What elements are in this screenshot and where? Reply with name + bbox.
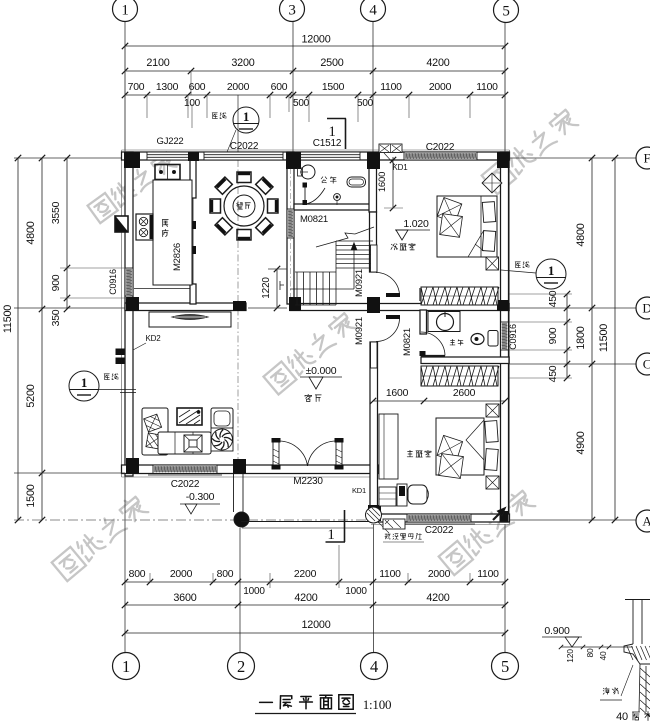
column axis1/F corner xyxy=(124,152,140,168)
dressing table xyxy=(397,484,407,506)
svg-text:2200: 2200 xyxy=(294,569,317,580)
stair landing edge xyxy=(295,271,336,273)
svg-text:M0921: M0921 xyxy=(354,269,365,297)
porch slab edge xyxy=(241,521,373,523)
column axis2 bottom-left wall xyxy=(233,459,246,474)
svg-text:600: 600 xyxy=(271,82,288,93)
svg-text:800: 800 xyxy=(129,569,146,580)
svg-text:1800: 1800 xyxy=(575,326,587,349)
kitchen counter xyxy=(153,180,192,285)
dressing stool xyxy=(408,485,427,504)
svg-text:C1512: C1512 xyxy=(313,138,342,149)
roman column right (hatched) xyxy=(366,507,382,523)
door M0921 master suite xyxy=(371,342,378,368)
svg-text:40: 40 xyxy=(598,651,608,661)
wall kitchen/dining divider lower xyxy=(190,284,196,304)
svg-text:2100: 2100 xyxy=(146,57,169,69)
dim row2 top xyxy=(125,70,505,72)
sofa right armchair xyxy=(211,408,233,429)
svg-text:80: 80 xyxy=(585,648,595,658)
dining table xyxy=(224,186,264,226)
wall bottom-left exterior xyxy=(122,465,379,474)
wall axis-4 vertical upper (WC/bedroom2) xyxy=(369,160,377,212)
svg-text:5: 5 xyxy=(502,3,509,19)
dims 1600 2600 master xyxy=(373,400,505,402)
column axis4/D xyxy=(367,297,380,313)
window C2022 top dining xyxy=(204,152,283,160)
column axis5/D xyxy=(497,300,509,311)
svg-text:3: 3 xyxy=(288,2,295,18)
svg-text:2000: 2000 xyxy=(227,82,250,93)
wardrobe master xyxy=(421,366,498,386)
dim 1600 bedroom2 xyxy=(392,157,394,208)
dim col sub right xyxy=(566,294,568,378)
window C2022 top bedroom2 xyxy=(404,152,477,160)
dim line 12000 top xyxy=(125,45,505,47)
svg-text:KD2: KD2 xyxy=(146,334,162,343)
AC unit KD1 top xyxy=(379,144,402,153)
svg-text:M0821: M0821 xyxy=(402,328,413,356)
svg-text:1100: 1100 xyxy=(379,569,401,580)
window C0916 right master-bath xyxy=(501,322,509,350)
svg-text:12000: 12000 xyxy=(301,619,330,631)
watermark center xyxy=(263,310,357,394)
svg-text:2000: 2000 xyxy=(429,82,452,93)
wall bottom-right exterior (master bedroom) xyxy=(370,514,510,522)
WC floor drain xyxy=(334,194,341,201)
svg-text:900: 900 xyxy=(51,274,62,291)
column axis1/D xyxy=(126,297,139,311)
column axis3/F xyxy=(286,152,301,169)
wall master-bath west xyxy=(420,310,427,334)
axis line F horizontal xyxy=(509,157,636,159)
window C0916 left kitchen xyxy=(125,268,133,296)
svg-text:1100: 1100 xyxy=(380,82,402,93)
svg-text:800: 800 xyxy=(217,569,234,580)
cabinet xyxy=(379,487,396,506)
svg-text:5: 5 xyxy=(501,657,509,676)
rattan swivel chair xyxy=(211,428,233,451)
wall kitchen/dining divider upper xyxy=(190,160,196,198)
wall left exterior xyxy=(125,152,133,476)
svg-text:2500: 2500 xyxy=(320,57,343,69)
watermark top-left xyxy=(87,150,177,223)
svg-text:1500: 1500 xyxy=(322,82,345,93)
svg-text:100: 100 xyxy=(184,98,201,109)
svg-text:4200: 4200 xyxy=(426,592,449,604)
bath toilet xyxy=(471,334,484,345)
column axis4/F xyxy=(367,152,380,169)
svg-text:1: 1 xyxy=(121,2,128,18)
dim col2 right xyxy=(591,158,593,520)
svg-text:M0921: M0921 xyxy=(354,317,365,345)
kitchen flue xyxy=(115,216,128,232)
WC bathtub xyxy=(347,177,366,187)
column axis2/D xyxy=(233,301,246,311)
svg-text:1000: 1000 xyxy=(345,586,367,597)
wall top exterior xyxy=(122,152,510,160)
wardrobe bedroom2 xyxy=(421,287,498,305)
sliding door M2826 track xyxy=(192,198,194,284)
watermark top-right xyxy=(482,107,579,194)
svg-text:M2230: M2230 xyxy=(293,476,323,487)
wall axis-3 vertical (dining/WC/stair) xyxy=(287,152,294,304)
dresser master xyxy=(379,414,398,479)
svg-text:1000: 1000 xyxy=(243,586,265,597)
window C2022 bottom living xyxy=(153,465,217,474)
svg-text:0.900: 0.900 xyxy=(544,625,570,637)
axis bubble 2 bottom xyxy=(228,653,255,680)
axis bubble D right xyxy=(636,297,650,319)
coffee table xyxy=(184,435,202,452)
label 公卫 xyxy=(321,177,327,183)
wall axis-D interior left (kitchen/living) xyxy=(125,303,246,311)
svg-text:1.020: 1.020 xyxy=(403,218,429,230)
column axis3/D xyxy=(289,297,301,311)
nightstand bedroom2 top (diamond) xyxy=(482,173,502,193)
wall axis-D interior right (hall/bedrooms) xyxy=(290,304,509,311)
svg-text:M2826: M2826 xyxy=(172,243,183,271)
WC sink xyxy=(301,165,315,179)
axis line 3 vertical xyxy=(292,22,294,152)
svg-text:4800: 4800 xyxy=(25,221,37,244)
svg-text:1: 1 xyxy=(328,124,335,140)
svg-text:2600: 2600 xyxy=(453,388,476,399)
label 主卧室 xyxy=(407,450,413,456)
svg-text:C0916: C0916 xyxy=(508,324,518,350)
label 餐厅 (on table) xyxy=(237,203,243,210)
nightstand master bottom xyxy=(486,476,499,489)
svg-text:500: 500 xyxy=(357,98,374,109)
column divider top xyxy=(188,152,199,161)
wall WC bottom xyxy=(294,204,373,210)
stair lower flight treads xyxy=(296,272,298,305)
svg-text:KD1: KD1 xyxy=(393,163,409,172)
svg-text:C: C xyxy=(643,357,650,372)
svg-text:450: 450 xyxy=(548,290,559,307)
detail dims 120/80/40 xyxy=(561,646,633,648)
svg-text:12000: 12000 xyxy=(301,34,330,46)
door M0821 WC xyxy=(303,183,308,188)
roof overhang outline xyxy=(122,150,510,525)
svg-text:C0916: C0916 xyxy=(108,269,118,295)
dim col3 right 11500 xyxy=(614,158,616,520)
door M2230 leaf left xyxy=(273,441,279,468)
dim 1220 stair xyxy=(276,269,278,308)
svg-text:1600: 1600 xyxy=(386,388,409,399)
section mark 1 bottom xyxy=(326,510,346,542)
svg-text:D: D xyxy=(642,301,650,316)
svg-text:F: F xyxy=(643,151,650,166)
blanket fold bedroom2 xyxy=(468,230,484,257)
nightstand master top xyxy=(486,404,499,417)
detail wall section xyxy=(632,600,634,644)
axis bubble C right xyxy=(636,353,650,375)
axis bubble A right xyxy=(636,510,650,532)
index circle right + 屋线 xyxy=(536,259,566,289)
bath washbasin xyxy=(428,312,460,332)
axis line 1 vertical xyxy=(124,22,126,152)
label 客厅 xyxy=(305,394,311,401)
axis line D horizontal xyxy=(509,307,636,309)
dim col3 left 11500 xyxy=(17,158,19,520)
axis line C horizontal xyxy=(509,363,636,365)
dining chairs xyxy=(268,199,279,213)
svg-text:1: 1 xyxy=(327,527,334,543)
axis bubble 3 top xyxy=(280,0,305,22)
blanket master xyxy=(466,420,484,460)
svg-text:5200: 5200 xyxy=(25,384,37,407)
wall right exterior xyxy=(501,152,509,522)
porch side wall xyxy=(233,474,235,512)
column axis4 porch corner xyxy=(368,505,381,521)
wall axis-4 vertical stair side xyxy=(370,212,377,272)
svg-text:3550: 3550 xyxy=(51,201,62,224)
column axis5/A corner xyxy=(500,511,509,522)
dim row2 bottom xyxy=(125,604,505,606)
kitchen sink xyxy=(155,165,180,180)
svg-text:3200: 3200 xyxy=(231,57,254,69)
door M2230 arcs xyxy=(279,441,308,466)
label 现浇罗马柱 xyxy=(378,522,389,533)
svg-text:11500: 11500 xyxy=(598,324,610,352)
axis bubble 1 bottom xyxy=(113,653,140,680)
sofa bench xyxy=(158,432,211,454)
sofa left chaise xyxy=(142,408,168,455)
extension lines top xyxy=(124,46,126,152)
column axis5/F corner xyxy=(497,152,510,168)
svg-text:4: 4 xyxy=(369,2,377,18)
kitchen stove xyxy=(136,214,153,240)
svg-text:1100: 1100 xyxy=(476,82,498,93)
svg-text:1100: 1100 xyxy=(477,569,499,580)
axis bubble 4 top xyxy=(361,0,386,22)
svg-text:C2022: C2022 xyxy=(230,141,259,152)
section mark 1 top xyxy=(327,119,346,150)
stair upper flight treads xyxy=(336,240,373,242)
axis line 2 vertical xyxy=(237,95,239,152)
axis line 4 vertical xyxy=(372,22,374,152)
svg-text:1300: 1300 xyxy=(156,82,179,93)
svg-text:1:100: 1:100 xyxy=(363,697,392,712)
column axis1 bottom-left xyxy=(126,458,139,474)
svg-text:4800: 4800 xyxy=(575,223,587,246)
svg-text:4: 4 xyxy=(370,657,378,676)
wall axis-C master-bath bottom xyxy=(421,357,509,364)
label 主卫 xyxy=(450,339,455,345)
axis line 5 vertical xyxy=(504,22,506,152)
svg-text:1600: 1600 xyxy=(377,172,388,192)
extension lines bottom xyxy=(149,573,151,582)
svg-text:1: 1 xyxy=(548,263,554,278)
svg-text:3600: 3600 xyxy=(173,592,196,604)
axis bubble 5 bottom xyxy=(492,653,519,680)
extension lines left xyxy=(60,267,127,269)
svg-text:4200: 4200 xyxy=(426,57,449,69)
axis bubble 5 top xyxy=(494,0,519,23)
svg-text:±0.000: ±0.000 xyxy=(306,365,337,377)
stair direction arrow xyxy=(290,288,354,290)
nightstand bedroom2 bottom xyxy=(486,257,499,270)
dim col2 left xyxy=(41,158,43,520)
svg-text:C2022: C2022 xyxy=(426,142,455,153)
svg-text:500: 500 xyxy=(293,98,310,109)
dim col sub left xyxy=(66,158,68,309)
index circle left + 屋线 xyxy=(69,371,99,401)
svg-text:2000: 2000 xyxy=(428,569,451,580)
svg-text:2000: 2000 xyxy=(170,569,193,580)
stair break line xyxy=(316,227,374,247)
svg-text:900: 900 xyxy=(548,327,559,344)
label 次卧室 xyxy=(391,244,398,250)
svg-text:11500: 11500 xyxy=(2,305,14,333)
svg-text:700: 700 xyxy=(128,82,145,93)
svg-text:120: 120 xyxy=(565,649,575,663)
svg-text:KD1: KD1 xyxy=(352,486,366,495)
axis line A horizontal dash-dot xyxy=(14,519,508,521)
porch round column left xyxy=(234,512,249,527)
svg-text:-0.300: -0.300 xyxy=(186,491,215,503)
svg-text:350: 350 xyxy=(51,309,62,326)
watermark bottom-left xyxy=(52,494,149,581)
svg-text:M0821: M0821 xyxy=(300,214,328,225)
watermark bottom-right xyxy=(439,488,536,575)
svg-text:4900: 4900 xyxy=(575,431,587,454)
svg-text:1: 1 xyxy=(81,375,87,390)
svg-text:1: 1 xyxy=(243,109,249,124)
window GJ222 top kitchen xyxy=(147,152,190,160)
window C1512 top WC xyxy=(296,152,360,160)
svg-text:1220: 1220 xyxy=(261,277,272,299)
door M2230 leaf right xyxy=(336,441,342,468)
svg-text:C2022: C2022 xyxy=(171,479,200,490)
bed master xyxy=(436,418,484,475)
svg-text:4200: 4200 xyxy=(294,592,317,604)
svg-text:GJ222: GJ222 xyxy=(157,136,184,147)
svg-text:2: 2 xyxy=(237,657,245,676)
axis bubble 1 top xyxy=(113,0,138,22)
window C2022 bottom master-bedroom xyxy=(407,514,471,522)
louver vent on axis-3 wall xyxy=(287,209,294,238)
wall master-suite west xyxy=(370,342,378,514)
title 一层平面图 1:100 xyxy=(260,701,273,703)
label 滴水 xyxy=(603,688,609,695)
axis bubble F right xyxy=(636,147,650,169)
svg-text:450: 450 xyxy=(548,365,559,382)
door M0921 bedroom2 xyxy=(371,245,378,272)
TV xyxy=(177,408,202,425)
svg-text:1: 1 xyxy=(122,657,130,676)
door M0821 master bath xyxy=(421,355,445,357)
dim row3 top xyxy=(125,94,505,96)
svg-text:A: A xyxy=(642,514,650,529)
svg-text:40: 40 xyxy=(616,711,628,721)
corner AC arrow master xyxy=(493,510,503,520)
sideboard xyxy=(149,312,231,327)
bed bedroom2 xyxy=(437,196,497,257)
axis bubble 4 bottom xyxy=(361,653,388,680)
label 厨房 xyxy=(162,220,168,227)
svg-text:1500: 1500 xyxy=(25,484,37,507)
svg-text:C2022: C2022 xyxy=(425,525,454,536)
dim row3 bottom 12000 xyxy=(125,632,505,634)
index circle top + 屋线 xyxy=(233,107,259,133)
dim row1 bottom xyxy=(125,581,505,583)
